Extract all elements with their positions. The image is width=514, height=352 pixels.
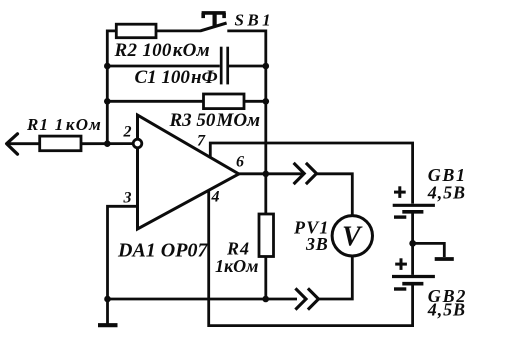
wire mid junction to GB2 plus [411,243,414,275]
connector lower chevrons [295,288,306,309]
wire R3 right [244,100,266,103]
wire ground rail bottom [108,298,298,301]
node input junction [104,140,111,147]
node battery mid junction [409,240,416,247]
svg-text:4: 4 [211,188,220,205]
op-amp DA1 triangle [138,115,239,229]
svg-text:C1 100нФ: C1 100нФ [135,67,218,88]
svg-text:4,5В: 4,5В [427,182,466,202]
node C1 left junction [104,63,111,70]
node output junction [263,171,270,178]
ground left [106,299,109,325]
svg-text:7: 7 [197,132,206,149]
resistor R2 [116,24,156,38]
svg-text:1кОм: 1кОм [215,256,258,276]
resistor R4 [259,214,274,257]
node ground junction [104,296,111,303]
wire GB1 minus to mid junction [411,213,414,243]
wire GB2 minus down bottom rail to pin 4 [209,191,413,326]
resistor R3 [204,94,245,109]
node R4 bottom junction [262,296,269,303]
wire lower connector to voltmeter bottom [319,256,353,299]
ground right [435,257,454,261]
resistor R1 [40,136,81,151]
wire output node down to R4 [264,174,267,214]
input arrow [7,134,18,154]
wire R2 to SB1 [156,29,201,32]
wire pin 3 to ground rail [108,206,138,299]
node R3 right junction [263,98,270,105]
wire input to R1 [7,142,40,145]
svg-text:6: 6 [236,154,244,171]
capacitor C1 [220,47,223,85]
wire R1 to op-amp input [81,142,134,145]
battery GB2 [392,275,435,278]
wire SB1 right to top-right corner and down [227,31,265,174]
node R3 left junction [104,98,111,105]
svg-text:R3 50МОм: R3 50МОм [169,110,261,131]
pin 2 inverting bubble [133,139,142,148]
wire upper connector to voltmeter top [317,174,353,216]
wire mid junction to ground right [413,243,445,257]
svg-text:V: V [342,222,363,253]
wire pin 7 to V+ rail to GB1 [210,143,412,204]
svg-text:3: 3 [123,189,132,206]
node C1 right junction [263,63,270,70]
svg-text:DA1 OP07: DA1 OP07 [117,239,208,261]
wire C1 row left [107,65,220,68]
svg-text:R1 1кОм: R1 1кОм [26,115,102,134]
svg-text:R2 100кОм: R2 100кОм [114,40,211,61]
svg-text:3В: 3В [305,234,329,254]
wire left vertical feedback rail [107,31,116,144]
wire R3 row left [107,100,203,103]
svg-text:4,5В: 4,5В [427,300,466,320]
wire C1 right [229,65,266,68]
pushbutton SB1 [201,13,227,31]
connector upper chevrons [294,163,305,184]
voltmeter PV1 circle [332,216,372,256]
wire R4 bottom [264,257,267,300]
svg-text:2: 2 [123,123,132,140]
battery GB1 [393,204,435,207]
wire output pin 6 [239,172,304,175]
svg-text:SB1: SB1 [235,10,275,29]
